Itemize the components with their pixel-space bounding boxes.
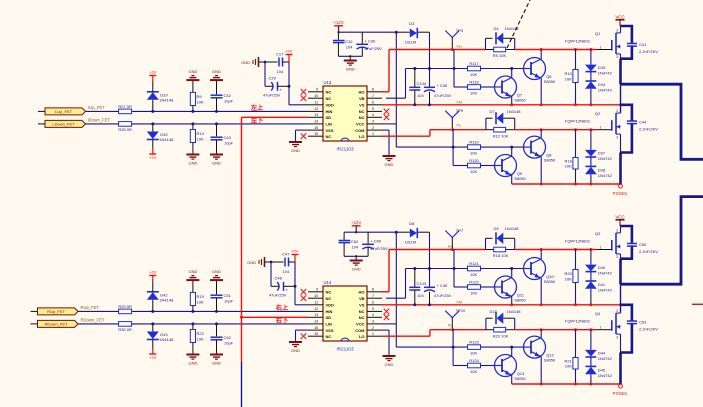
svg-text:+ C60: + C60 [370,239,382,244]
svg-text:1N4742: 1N4742 [598,173,613,178]
red label 左上 [250,104,264,112]
ground at VSS [289,140,302,153]
net label IDown_FET [88,118,111,123]
wire branch to C48 [271,262,279,286]
svg-text:10K: 10K [565,76,572,81]
svg-text:4: 4 [372,113,374,117]
wire R16 bottom [574,169,577,186]
wire emitter Q7 [510,97,513,107]
wire diode to +2V [152,81,154,92]
svg-text:C144: C144 [417,81,427,86]
resistor R124 10K [468,358,481,368]
svg-text:D34: D34 [598,82,606,87]
wire collector Q9 [511,147,513,156]
transistor Q6 S8050 [524,58,557,85]
svg-text:LIN: LIN [326,322,333,327]
svg-text:16: 16 [314,332,318,336]
wire collector Q7 [511,69,513,78]
svg-text:1N4742: 1N4742 [598,88,613,93]
wire R9 to row [192,106,194,112]
resistor R19 10K [190,292,204,305]
resistor R16 10K [565,158,579,170]
svg-text:3: 3 [616,135,618,139]
svg-text:C32: C32 [345,39,353,44]
svg-text:1: 1 [600,45,602,49]
svg-text:TP3: TP3 [456,28,464,33]
wire R119 to base [480,146,523,148]
wire +12V loop bottom [344,255,368,258]
wire IUp_FET row [86,110,309,112]
svg-text:VCC: VCC [615,14,624,19]
svg-text:8: 8 [372,88,374,92]
wire emitter Q10 [540,278,543,306]
wire clamp drop to R122 [454,250,468,288]
svg-text:104: 104 [283,269,290,274]
svg-text:6: 6 [372,101,374,105]
svg-text:2: 2 [372,126,374,130]
svg-text:US1M: US1M [405,40,416,45]
svg-text:10K: 10K [470,369,477,374]
wire R20 top [575,250,577,270]
wire RDown_FET row [78,323,308,325]
svg-text:D7: D7 [490,109,496,114]
wire gnd to R19 [192,282,194,292]
wire gate Q3 [596,249,611,251]
wire LO after parallel pair [515,328,597,331]
wire C17 to +5V node [283,61,290,63]
label 10K of R121 [470,272,477,277]
capacitor C49 47uF/25V [424,283,452,305]
wire clamp drop to R124 [453,330,468,366]
diode D42 1N4148 [147,292,174,303]
svg-text:FH: FH [457,45,462,49]
wire R16 top [575,130,577,158]
wire VCC vertical to pin 3 [382,232,396,347]
svg-text:6: 6 [372,301,374,305]
svg-text:VDD: VDD [326,303,335,308]
transistor Q3 FQPF12N60C [565,229,621,259]
svg-text:+ C49: + C49 [437,283,449,288]
svg-text:D4: D4 [494,26,500,31]
zener D37 1N4742 [585,130,613,161]
svg-text:VB: VB [359,296,365,301]
svg-text:104: 104 [352,245,359,250]
wire emitter Q11 [510,297,513,307]
net label FH [457,45,462,49]
wire VB to pin 7 [386,69,406,99]
transistor Q10 S8050 [524,258,557,285]
power VCC [615,214,624,226]
svg-text:10K: 10K [470,290,477,295]
wire RUp_FET row [78,310,308,312]
resistor R118 10K [468,79,481,89]
transistor Q8 S8050 [524,136,557,163]
svg-text:10K: 10K [197,136,204,141]
ground at COM [383,354,396,367]
svg-text:D18: D18 [490,309,498,314]
test point TP7 [445,228,464,250]
svg-text:S8050: S8050 [514,176,526,181]
svg-text:VS: VS [359,103,365,108]
wire VDD node down to pin 11 [295,262,308,305]
svg-text:C48: C48 [275,276,283,281]
svg-text:47uF/25V: 47uF/25V [263,93,281,98]
ground at +12V caps [350,259,363,272]
red label 右上 [276,304,289,312]
svg-text:R117: R117 [469,61,479,66]
svg-text:10K: 10K [197,99,204,104]
op-amp U13 IR21103 driver [308,80,382,151]
svg-text:10pF: 10pF [224,98,234,103]
svg-text:2.2nF/2KV: 2.2nF/2KV [639,327,658,332]
svg-text:SD: SD [326,115,332,120]
label 10K of R122 [470,290,477,295]
connector RDown_FET [31,320,79,327]
svg-text:VB: VB [359,96,365,101]
svg-text:2: 2 [616,29,618,33]
svg-text:右上: 右上 [276,304,289,312]
wire R19 to row [192,306,194,312]
label 10K of R117 [470,72,477,77]
svg-text:D37: D37 [598,150,606,155]
svg-text:10K: 10K [470,150,477,155]
svg-text:RUp_FET: RUp_FET [81,305,100,310]
no-connect pin 16 [301,333,307,339]
resistor R119 10K [468,140,481,150]
svg-text:D9: D9 [494,226,500,231]
svg-text:COM: COM [355,328,365,333]
svg-text:11: 11 [314,301,318,305]
power +2V (lower clamp) [149,349,157,361]
svg-text:1N4742: 1N4742 [598,71,613,76]
svg-text:2.2nF/2KV: 2.2nF/2KV [639,127,658,132]
svg-text:1N4148: 1N4148 [507,309,522,314]
svg-text:SD: SD [326,315,332,320]
wire R22 to gnd [192,343,194,353]
svg-text:S8050: S8050 [514,298,526,303]
capacitor C51 10pF [211,293,234,303]
ground below C52 [210,353,223,366]
svg-text:2.2nF/2KV: 2.2nF/2KV [639,49,658,54]
capacitor C47 104 [282,252,290,275]
svg-text:NC: NC [326,90,332,95]
power +12V [351,220,361,232]
svg-text:10: 10 [314,94,318,98]
wire VCC to drain [620,226,622,233]
svg-text:FQPF12N60C: FQPF12N60C [565,38,590,43]
wire VDD node down to pin 11 [289,62,308,105]
junction at VCC drop [395,31,398,34]
svg-text:U14: U14 [324,280,332,285]
svg-text:10K: 10K [470,169,477,174]
svg-text:RDown_FET: RDown_FET [45,322,68,327]
red label 右下 [276,317,288,325]
svg-text:2.2nF/2KV: 2.2nF/2KV [639,249,658,254]
svg-text:3: 3 [616,55,618,59]
svg-text:104: 104 [417,293,424,298]
no-connect pin 16 [301,133,307,139]
svg-text:COM: COM [355,128,365,133]
resistor R12 10K [486,127,515,138]
svg-text:R27 0R: R27 0R [118,104,132,109]
svg-text:12: 12 [314,107,318,111]
wire R10 top [575,50,577,70]
svg-text:GND: GND [346,67,355,72]
svg-text:10K: 10K [197,299,204,304]
svg-text:47uF/25V: 47uF/25V [370,246,388,251]
svg-text:1N4148: 1N4148 [507,109,522,114]
svg-text:NC: NC [359,115,365,120]
wire +12V loop bottom [338,55,362,58]
no-connect pin 4 [384,115,390,121]
svg-text:S8050: S8050 [544,358,556,363]
label 10K of R120 [470,169,477,174]
net label FM [457,100,462,104]
label 10K of R119 [470,150,477,155]
wire emitter Q12 [540,357,543,386]
wire to clamp diode D30 [152,124,154,132]
diode D30 1N4148 [147,132,174,143]
capacitor C43 10pF [211,135,234,145]
wire branch to C29 [265,62,273,86]
svg-text:2: 2 [616,109,618,113]
wire VB horizontal [406,67,468,70]
wire gnd to C51 [216,282,218,294]
wire gnd to C42 [216,82,218,94]
svg-text:NC: NC [326,134,332,139]
diode D9 1N4148 [486,226,520,250]
svg-text:R119: R119 [469,140,479,145]
svg-text:IUp_FET: IUp_FET [88,105,105,110]
svg-text:NC: NC [359,109,365,114]
wire +12V rail [344,231,429,233]
power +2V (VDD) [291,249,299,263]
wire to clamp diode D43 [152,324,154,332]
svg-text:10pF: 10pF [224,298,234,303]
svg-text:8: 8 [372,288,374,292]
transistor Q12 S8050 [524,336,557,363]
svg-text:1N4148: 1N4148 [159,137,174,142]
capacitor C52 10pF [211,335,234,345]
svg-text:D40: D40 [598,265,606,270]
svg-text:1N4148: 1N4148 [159,297,174,302]
ground at COM [383,154,396,167]
wire SD net vertical [242,316,309,318]
resistor R122 10K [468,279,481,289]
svg-text:FQPF12N60C: FQPF12N60C [565,119,590,124]
resistor R23 10K [486,327,515,338]
svg-text:R5 10K: R5 10K [493,53,507,58]
zener D38 1N4742 [585,157,613,186]
svg-text:9: 9 [316,88,318,92]
diode D3 US1M [405,21,417,45]
svg-text:GND: GND [385,162,394,167]
svg-text:13: 13 [314,313,318,317]
no-connect pin 10 [301,295,307,301]
resistor R28 0R [118,122,132,133]
wire source Q2 to PGND [620,134,622,184]
zener D45 1N4742 [585,357,613,386]
net label RUp_FET [81,305,100,310]
svg-text:GND: GND [291,348,300,353]
svg-text:15: 15 [314,126,318,130]
svg-text:S8050: S8050 [544,279,556,284]
resistor R121 10K [468,261,481,271]
wire emitter Q8 [540,157,543,186]
svg-text:+2V: +2V [149,355,157,360]
wire VCC to base resistors [396,146,513,149]
dashed annotation line [507,0,530,48]
power +2V (upper clamp) [149,70,157,82]
wire collector Q8 [540,130,542,138]
wire VB from diode down [429,32,431,87]
wire R120 to base [480,165,494,167]
power VCC [615,14,624,26]
junction at test point [451,248,454,251]
svg-text:Q2: Q2 [595,111,601,116]
connector LDown_FET [38,120,86,127]
capacitor C143 104 [409,269,427,305]
wire R14 to gnd [192,143,194,153]
svg-text:1N4742: 1N4742 [598,271,613,276]
svg-text:R18 10K: R18 10K [493,253,509,258]
svg-text:GND: GND [188,269,197,274]
junctions on HIN row [151,110,218,113]
wire R118 to base [480,86,494,88]
diode D29 1N4148 [147,92,174,103]
svg-text:FQPF12N60C: FQPF12N60C [565,238,590,243]
svg-text:VCC: VCC [356,322,365,327]
transistor Q7 S8050 [495,76,527,103]
capacitor C40 47uF/25V [424,83,452,105]
connector RUp_FET [31,308,79,315]
connector LUp_FET [38,108,86,115]
junction at test point [451,48,454,51]
ground above C51 [210,269,223,282]
wire VB to pin 7 [386,269,406,299]
svg-text:TP7: TP7 [456,228,464,233]
wire source Q1 to midpoint [620,54,622,113]
wire R21 bottom [574,369,577,386]
svg-text:D38: D38 [598,167,606,172]
svg-text:VS: VS [359,303,365,308]
wire C47 to +5V node [289,261,296,263]
svg-text:NC: NC [326,290,332,295]
svg-text:C29: C29 [269,76,277,81]
ground below R22 [186,353,199,366]
wire C43 to gnd [216,141,218,153]
svg-text:5: 5 [372,107,374,111]
test point TP9 [445,108,464,130]
svg-text:47uF/25V: 47uF/25V [434,93,452,98]
wire diode to +2V [152,340,154,349]
svg-text:4: 4 [372,313,374,317]
svg-text:VDD: VDD [326,103,335,108]
svg-text:GND: GND [212,269,221,274]
svg-text:R120: R120 [469,158,479,163]
ground (horizontal) for C47 [247,257,271,267]
wire HO after parallel pair [515,48,597,51]
wire continuation to sheet bottom [241,362,243,407]
zener D44 1N4742 [585,330,613,361]
svg-text:1N4148: 1N4148 [159,337,174,342]
svg-text:104: 104 [277,69,284,74]
wire source Q3 to midpoint [620,254,622,313]
capacitor C48 47uF/25V [269,276,288,298]
svg-text:12: 12 [314,307,318,311]
svg-text:10: 10 [314,294,318,298]
svg-text:1: 1 [372,332,374,336]
wire to clamp diode D42 [152,300,154,312]
svg-text:D3: D3 [409,21,415,26]
wire R22 from row [192,324,194,330]
svg-text:左上: 左上 [250,104,264,112]
wire gate Q2 [596,129,611,131]
svg-text:10pF: 10pF [224,340,234,345]
capacitor C60 47uF/25V [362,232,388,256]
capacitor C53 2.2nF/2KV [621,305,659,353]
svg-text:1N4148: 1N4148 [505,226,520,231]
svg-text:GND: GND [352,267,361,272]
capacitor C62 104 [339,232,359,256]
junction at VCC drop [395,231,398,234]
wire R123 to base [480,346,523,348]
svg-text:FQPF12N60C: FQPF12N60C [565,319,590,324]
wire emitter Q6 [540,78,543,106]
junction at low test point [451,328,454,331]
resistor R18 10K [486,247,515,258]
svg-text:GND: GND [385,362,394,367]
svg-text:Q1: Q1 [595,31,601,36]
wire diode to +2V [152,281,154,292]
power +2V (VDD) [285,49,293,63]
svg-text:7: 7 [372,94,374,98]
wire R122 to base [480,286,494,288]
net label FL [457,123,461,127]
resistor R21 10K [565,358,579,370]
svg-text:GND: GND [188,69,197,74]
svg-text:VSS: VSS [326,328,334,333]
svg-text:C62: C62 [351,239,359,244]
svg-text:C47: C47 [282,252,290,257]
wire C51 to row [216,298,218,311]
svg-text:1N4148: 1N4148 [505,26,520,31]
junctions on HIN row [151,310,218,313]
ground at +12V caps [344,59,357,72]
wire R14 from row [192,124,194,130]
svg-text:GND: GND [247,260,256,265]
wire HO output [382,250,486,292]
capacitor C50 2.2nF/2KV [621,226,659,259]
svg-text:47uF/25V: 47uF/25V [365,46,383,51]
test point TP3 [445,28,464,50]
zener D33 1N4742 [585,50,613,76]
resistor R5 10K [486,47,515,58]
svg-text:R30 0R: R30 0R [118,327,132,332]
svg-text:3: 3 [616,335,618,339]
wire gate Q4 [596,329,611,331]
resistor R30 0R [118,322,132,333]
svg-text:D44: D44 [598,350,606,355]
junction at +12V stem [337,31,339,33]
transistor Q13 S8050 [495,355,527,382]
svg-text:HO: HO [359,90,365,95]
wire R117 to base [480,67,523,70]
transistor Q11 S8050 [495,276,527,303]
svg-text:9: 9 [316,288,318,292]
wire collector Q10 [540,250,542,260]
wire C48 to VDD vertical [284,285,297,288]
